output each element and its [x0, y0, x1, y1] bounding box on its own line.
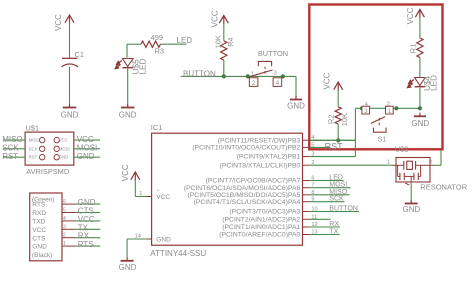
wire net pin 10 label BUTTON	[310, 206, 359, 213]
resonator internals	[396, 161, 430, 185]
wire pin14 to GND	[126, 239, 128, 257]
svg-text:S1: S1	[378, 137, 387, 144]
wire resonator pin3	[430, 151, 441, 166]
pin 5 (PCINT10/INT0/OC0A/CKOUT)PB2	[192, 142, 314, 151]
svg-text:GND: GND	[61, 111, 79, 120]
wire R1 to LED U$4	[419, 58, 421, 78]
ground (U$4)	[411, 113, 429, 128]
wire net pin 8 label MISO	[310, 189, 350, 196]
junction button pin1	[246, 74, 250, 78]
svg-text:4: 4	[365, 102, 368, 108]
U$1 pads row 3 (RST/GND)	[29, 155, 69, 160]
wire MOSI (right)	[74, 144, 100, 153]
LED U$5	[115, 58, 147, 74]
highlight box (red)	[309, 5, 442, 150]
svg-text:R4: R4	[226, 37, 235, 46]
switch S1 actuator	[371, 117, 386, 144]
svg-text:GND: GND	[119, 263, 137, 272]
svg-text:SCK: SCK	[29, 146, 38, 151]
pin 2 (PCINT8/XTAL1/CLKI)PB0	[220, 160, 315, 169]
pushbutton S2 actuator	[250, 61, 273, 76]
svg-text:BUTTON: BUTTON	[183, 70, 216, 79]
ground (U$2)	[403, 200, 421, 214]
svg-text:VCC: VCC	[322, 72, 331, 89]
svg-text:RTS: RTS	[32, 202, 46, 209]
svg-text:TXD: TXD	[32, 219, 45, 226]
connector FTDI outline	[30, 193, 62, 261]
svg-text:5: 5	[63, 208, 66, 214]
net RST wire	[310, 108, 356, 156]
svg-text:GND: GND	[119, 111, 137, 120]
svg-text:14: 14	[135, 233, 141, 239]
capacitor C1	[62, 50, 84, 67]
svg-text:10K: 10K	[340, 113, 349, 126]
svg-text:AVRISPSMD: AVRISPSMD	[26, 167, 69, 176]
pin 6 (PCINT7/ICP/OC0B/ADC7)PA7	[206, 176, 315, 185]
wire LED U$4 to GND node	[419, 88, 421, 109]
svg-text:MOSI: MOSI	[59, 146, 70, 151]
svg-text:TX: TX	[329, 229, 338, 236]
svg-text:1: 1	[251, 71, 254, 77]
wire S1 row	[355, 107, 420, 109]
svg-text:VCC: VCC	[211, 10, 220, 27]
FTDI pin 3 VCC -> TX	[32, 223, 100, 234]
svg-text:R1: R1	[409, 44, 418, 53]
svg-text:VCC: VCC	[54, 14, 63, 31]
wire VCC to C1	[69, 22, 71, 58]
svg-text:SCK: SCK	[329, 196, 344, 203]
svg-text:MOSI: MOSI	[329, 182, 347, 189]
svg-text:GND: GND	[59, 155, 69, 160]
svg-text:IC1: IC1	[151, 123, 163, 132]
svg-text:(PCINT3/T0/ADC3)PA3: (PCINT3/T0/ADC3)PA3	[229, 209, 300, 216]
svg-text:2: 2	[387, 102, 390, 108]
svg-text:3: 3	[63, 224, 66, 230]
wire net pin 5	[310, 146, 331, 148]
wire net pin 3	[310, 156, 356, 158]
svg-text:RXD: RXD	[32, 210, 46, 217]
FTDI pin 2 CTS -> RX	[32, 232, 100, 243]
pin 12 (PCINT1/AIN0/ADC1)PA1	[222, 222, 317, 231]
svg-text:R2: R2	[326, 115, 335, 124]
svg-text:C1: C1	[75, 50, 84, 59]
resistor R3 499	[141, 33, 164, 56]
pin 13 (PCINT0/AREF/ADC0)PA0	[219, 230, 317, 239]
connector U$1 AVRISPSMD outline	[25, 124, 74, 176]
IC IC1 outline	[150, 123, 302, 258]
svg-text:(PCINT0/AREF/ADC0)PA0: (PCINT0/AREF/ADC0)PA0	[219, 232, 300, 239]
power VCC symbol (R4 branch)	[211, 10, 229, 27]
resistor R1	[409, 38, 423, 58]
svg-text:(PCINT1/AIN0/ADC1)PA1: (PCINT1/AIN0/ADC1)PA1	[222, 224, 300, 231]
pin 3 (PCINT9/XTAL2)PB1	[237, 152, 315, 161]
wire button to GND	[295, 76, 297, 96]
label RESONATOR	[420, 183, 467, 192]
wire net pin 7 label MOSI	[310, 182, 351, 189]
svg-text:VCC: VCC	[121, 164, 130, 181]
power VCC symbol (C1 branch)	[54, 14, 74, 31]
wire VCC (right)	[74, 135, 100, 144]
wire SCK (left)	[2, 144, 25, 153]
wire VCC to R2	[337, 89, 339, 107]
net BUTTON wire	[181, 75, 296, 77]
svg-text:1: 1	[63, 241, 66, 247]
wire LED to GND	[127, 69, 129, 104]
svg-text:GND: GND	[156, 236, 171, 243]
svg-text:VCC: VCC	[406, 7, 415, 24]
switch S1 contacts	[362, 102, 393, 115]
ground (C1)	[61, 104, 79, 120]
svg-text:BUTTON: BUTTON	[258, 49, 288, 58]
svg-text:ATTINY44-SSU: ATTINY44-SSU	[150, 249, 206, 258]
power VCC symbol (IC1)	[121, 164, 140, 196]
power VCC symbol (R2 branch)	[322, 72, 342, 90]
svg-text:MISO: MISO	[2, 135, 22, 144]
wire GND (right)	[74, 152, 100, 161]
resonator U$2 outline	[387, 144, 432, 182]
svg-text:LED: LED	[138, 58, 147, 74]
svg-text:RESONATOR: RESONATOR	[420, 183, 467, 192]
wire net pin 2	[310, 164, 393, 166]
svg-text:(PCINT11/RESET/DW)PB3: (PCINT11/RESET/DW)PB3	[218, 137, 301, 144]
ground (button)	[287, 96, 305, 111]
junction S1 pin2	[394, 106, 398, 110]
svg-text:6: 6	[63, 199, 66, 205]
wire R4 to BUTTON net	[223, 60, 225, 76]
svg-text:1: 1	[387, 159, 390, 165]
svg-text:RST: RST	[325, 141, 344, 151]
svg-text:RST: RST	[2, 152, 18, 161]
net label BUTTON	[183, 70, 216, 79]
wire VCC to R1	[419, 17, 421, 38]
pin 9 (PCINT4/T1/SCL/USCK/ADC4)PA4	[194, 197, 315, 206]
ground (U$5)	[119, 104, 137, 120]
svg-text:LED: LED	[430, 75, 439, 91]
junction R4/BUTTON	[222, 74, 226, 78]
power VCC symbol (R1 branch)	[406, 7, 424, 24]
junction LED/GND	[418, 106, 422, 110]
svg-text:2: 2	[63, 233, 66, 239]
FTDI pin 4 TXD -> VCC	[32, 215, 100, 226]
svg-text:(PCINT2/AIN1/ADC2)PA2: (PCINT2/AIN1/ADC2)PA2	[222, 216, 300, 223]
junction R2/RST	[336, 138, 340, 142]
pin 8 (PCINT5/OC1B/MISO/DO/ADC5)PA5	[187, 190, 314, 199]
svg-text:VCC: VCC	[32, 227, 46, 234]
svg-text:RX: RX	[329, 221, 339, 228]
svg-text:4: 4	[63, 216, 66, 222]
svg-text:RST: RST	[29, 155, 38, 160]
resistor R2 10K	[326, 107, 349, 126]
svg-text:LED: LED	[177, 36, 193, 45]
svg-text:RTS: RTS	[78, 240, 94, 249]
U$1 pads row 1 (MISO/VCC)	[29, 137, 68, 142]
net label RST	[325, 141, 344, 151]
svg-text:BUTTON: BUTTON	[329, 206, 358, 213]
svg-text:(PCINT6/OC1A/SDA/MOSI/ADC6)PA6: (PCINT6/OC1A/SDA/MOSI/ADC6)PA6	[184, 185, 301, 192]
svg-text:(Black): (Black)	[32, 252, 53, 259]
svg-text:CTS: CTS	[32, 235, 46, 242]
ground (IC1)	[119, 257, 137, 272]
svg-text:VCC: VCC	[77, 135, 94, 144]
wire R3 to LED label	[161, 43, 187, 45]
wire XTAL1 pin2 to resonator pin1	[393, 164, 397, 166]
svg-text:GND: GND	[411, 119, 429, 128]
pin 1 VCC (IC1)	[135, 188, 170, 201]
pushbutton S2 name label	[258, 49, 288, 58]
junction button pin3	[281, 74, 285, 78]
wire net pin 12 label RX	[310, 221, 340, 228]
wire MISO (left)	[2, 135, 25, 144]
svg-text:GND: GND	[403, 205, 421, 214]
resistor R4 10K	[213, 35, 235, 60]
svg-text:(PCINT9/XTAL2)PB1: (PCINT9/XTAL2)PB1	[237, 154, 301, 161]
wire net pin 11	[310, 218, 331, 220]
FTDI pin 1 GND -> RTS	[32, 240, 100, 251]
wire R2 to RST net	[337, 124, 339, 140]
wire C1 to GND	[69, 67, 71, 104]
svg-text:(PCINT7/ICP/OC0B/ADC7)PA7: (PCINT7/ICP/OC0B/ADC7)PA7	[206, 178, 301, 185]
pin 7 (PCINT6/OC1A/SDA/MOSI/ADC6)PA6	[184, 183, 315, 192]
svg-text:MISO: MISO	[29, 138, 41, 143]
FTDI pin 5 RXD -> CTS	[32, 207, 100, 218]
svg-text:(PCINT4/T1/SCL/USCK/ADC4)PA4: (PCINT4/T1/SCL/USCK/ADC4)PA4	[194, 199, 301, 206]
svg-text:GND: GND	[287, 102, 305, 111]
pin 4 (PCINT11/RESET/DW)PB3	[218, 135, 315, 144]
wire net pin 13 label TX	[310, 229, 340, 236]
svg-text:3: 3	[274, 71, 277, 77]
wire resonator to GND	[410, 182, 412, 200]
pin 14 GND (IC1)	[127, 233, 171, 243]
U$1 pads row 2 (SCK/MOSI)	[29, 146, 70, 151]
svg-text:VCC: VCC	[156, 194, 170, 201]
svg-text:10K: 10K	[213, 35, 222, 48]
wire net pin 9 label SCK	[310, 196, 345, 203]
wire RST (left)	[2, 152, 25, 161]
svg-text:(PCINT8/XTAL1/CLKI)PB0: (PCINT8/XTAL1/CLKI)PB0	[220, 162, 301, 169]
svg-text:R3: R3	[155, 47, 164, 56]
svg-text:LED: LED	[329, 175, 343, 182]
wire net pin 6 label LED	[310, 175, 344, 182]
svg-text:GND: GND	[77, 152, 95, 161]
FTDI pin 6 RTS -> GND	[32, 198, 100, 209]
LED U$4	[407, 75, 439, 91]
svg-text:GND: GND	[32, 244, 47, 251]
wire VCC to R4	[223, 23, 225, 41]
junction S1 pin4	[360, 106, 364, 110]
pin 10 (PCINT3/T0/ADC3)PA3	[229, 207, 317, 216]
svg-text:U$2: U$2	[395, 144, 409, 153]
svg-text:VCC: VCC	[59, 138, 68, 143]
pin 11 (PCINT2/AIN1/ADC2)PA2	[222, 214, 317, 223]
svg-text:1: 1	[139, 191, 142, 197]
svg-text:U$1: U$1	[26, 124, 40, 133]
wire node to R3	[127, 44, 141, 57]
svg-text:(PCINT10/INT0/OC0A/CKOUT)PB2: (PCINT10/INT0/OC0A/CKOUT)PB2	[192, 145, 300, 152]
wire net pin 4	[310, 139, 356, 141]
net label LED	[177, 36, 193, 45]
svg-text:3: 3	[429, 159, 432, 165]
pushbutton S2 contacts	[249, 71, 281, 87]
svg-text:499: 499	[151, 33, 163, 42]
